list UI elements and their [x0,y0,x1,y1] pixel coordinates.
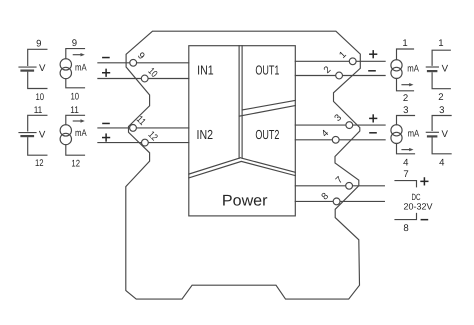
plus (wire 1) [369,53,377,55]
unit labels [39,63,449,141]
svg-text:9: 9 [36,38,41,49]
isolation barrier: power chevron [189,158,295,174]
svg-text:3: 3 [403,105,408,116]
plus (wire 12) [102,137,110,139]
svg-text:DC: DC [412,192,421,202]
svg-text:8: 8 [403,223,408,234]
arrow (ch1 load) [402,84,410,86]
load V (ch1) [432,50,450,88]
svg-text:1: 1 [438,38,443,49]
terminal 2 [336,72,343,79]
svg-text:11: 11 [70,105,79,116]
plus (wire 3) [369,118,377,120]
svg-text:2: 2 [438,92,443,103]
block labels [197,62,280,209]
voltage source V (ch1) [28,49,47,88]
plus (DC 7) [420,181,428,183]
svg-text:7: 7 [403,169,408,180]
wire 12 [98,142,189,144]
wire 10 [98,78,189,80]
svg-text:1: 1 [402,38,407,49]
rotated terminal numbers [134,49,349,202]
svg-text:9: 9 [72,38,77,49]
svg-text:4: 4 [403,158,409,169]
DC supply bracket bottom [395,213,417,219]
wire 11 [98,127,189,129]
terminal 11 [130,125,137,132]
svg-text:10: 10 [71,91,80,102]
svg-text:2: 2 [403,93,408,104]
arrow (ch2 source) [73,120,81,122]
minus (wire 2) [368,70,376,72]
svg-text:IN1: IN1 [197,63,214,78]
svg-text:mA: mA [75,63,87,74]
current source mA (ch1) [66,49,85,88]
terminal 7 [346,182,353,189]
DC supply bracket top [395,181,417,187]
current source mA (ch2) [66,115,85,155]
svg-text:IN2: IN2 [197,127,214,142]
wire 3 [295,124,385,126]
svg-text:3: 3 [439,105,444,116]
svg-text:mA: mA [408,129,420,140]
DC supply labels [403,192,432,212]
svg-text:V: V [442,63,449,74]
svg-text:OUT2: OUT2 [255,127,279,142]
terminal 9 [130,59,137,66]
svg-text:10: 10 [36,92,45,103]
terminal 10 [141,75,148,82]
svg-text:Power: Power [222,193,268,210]
svg-text:mA: mA [75,128,87,139]
minus (wire 4) [369,132,377,134]
voltage source V (ch2) [28,115,47,155]
svg-text:V: V [39,130,46,141]
wire 7 [295,185,384,187]
terminal 12 [142,139,149,146]
svg-text:OUT1: OUT1 [255,62,279,77]
wire 9 [98,62,189,64]
svg-text:V: V [39,63,46,74]
upright pin number labels [34,38,445,234]
svg-text:V: V [442,129,449,140]
minus (DC 8) [421,219,429,221]
terminal 3 [346,122,353,129]
terminal 8 [333,198,340,205]
svg-text:11: 11 [34,105,43,116]
module housing outline [126,31,360,299]
isolation barrier: central double vertical [238,46,240,159]
polarity signs drawn as shapes [102,50,429,220]
wire 4 [295,139,385,141]
wire 8 [295,200,384,202]
svg-text:4: 4 [439,158,445,169]
inner function box [189,46,295,216]
minus (wire 11) [102,123,110,125]
svg-text:20-32V: 20-32V [403,201,432,211]
arrow (ch1 source) [73,54,81,56]
wire 2 [295,75,385,77]
svg-text:12: 12 [35,158,44,169]
terminal 1 [349,58,356,65]
minus (wire 9) [102,57,110,59]
wire 1 [295,60,385,62]
load V (ch2) [432,116,451,154]
plus (wire 10) [102,72,110,74]
svg-text:mA: mA [407,63,419,74]
load mA (ch2) [397,116,415,154]
isolation barrier: OUT1/OUT2 divider [242,100,295,110]
load mA (ch1) [397,49,414,91]
terminal 4 [332,136,339,143]
arrow (ch2 load) [402,149,410,151]
svg-text:12: 12 [71,158,80,169]
